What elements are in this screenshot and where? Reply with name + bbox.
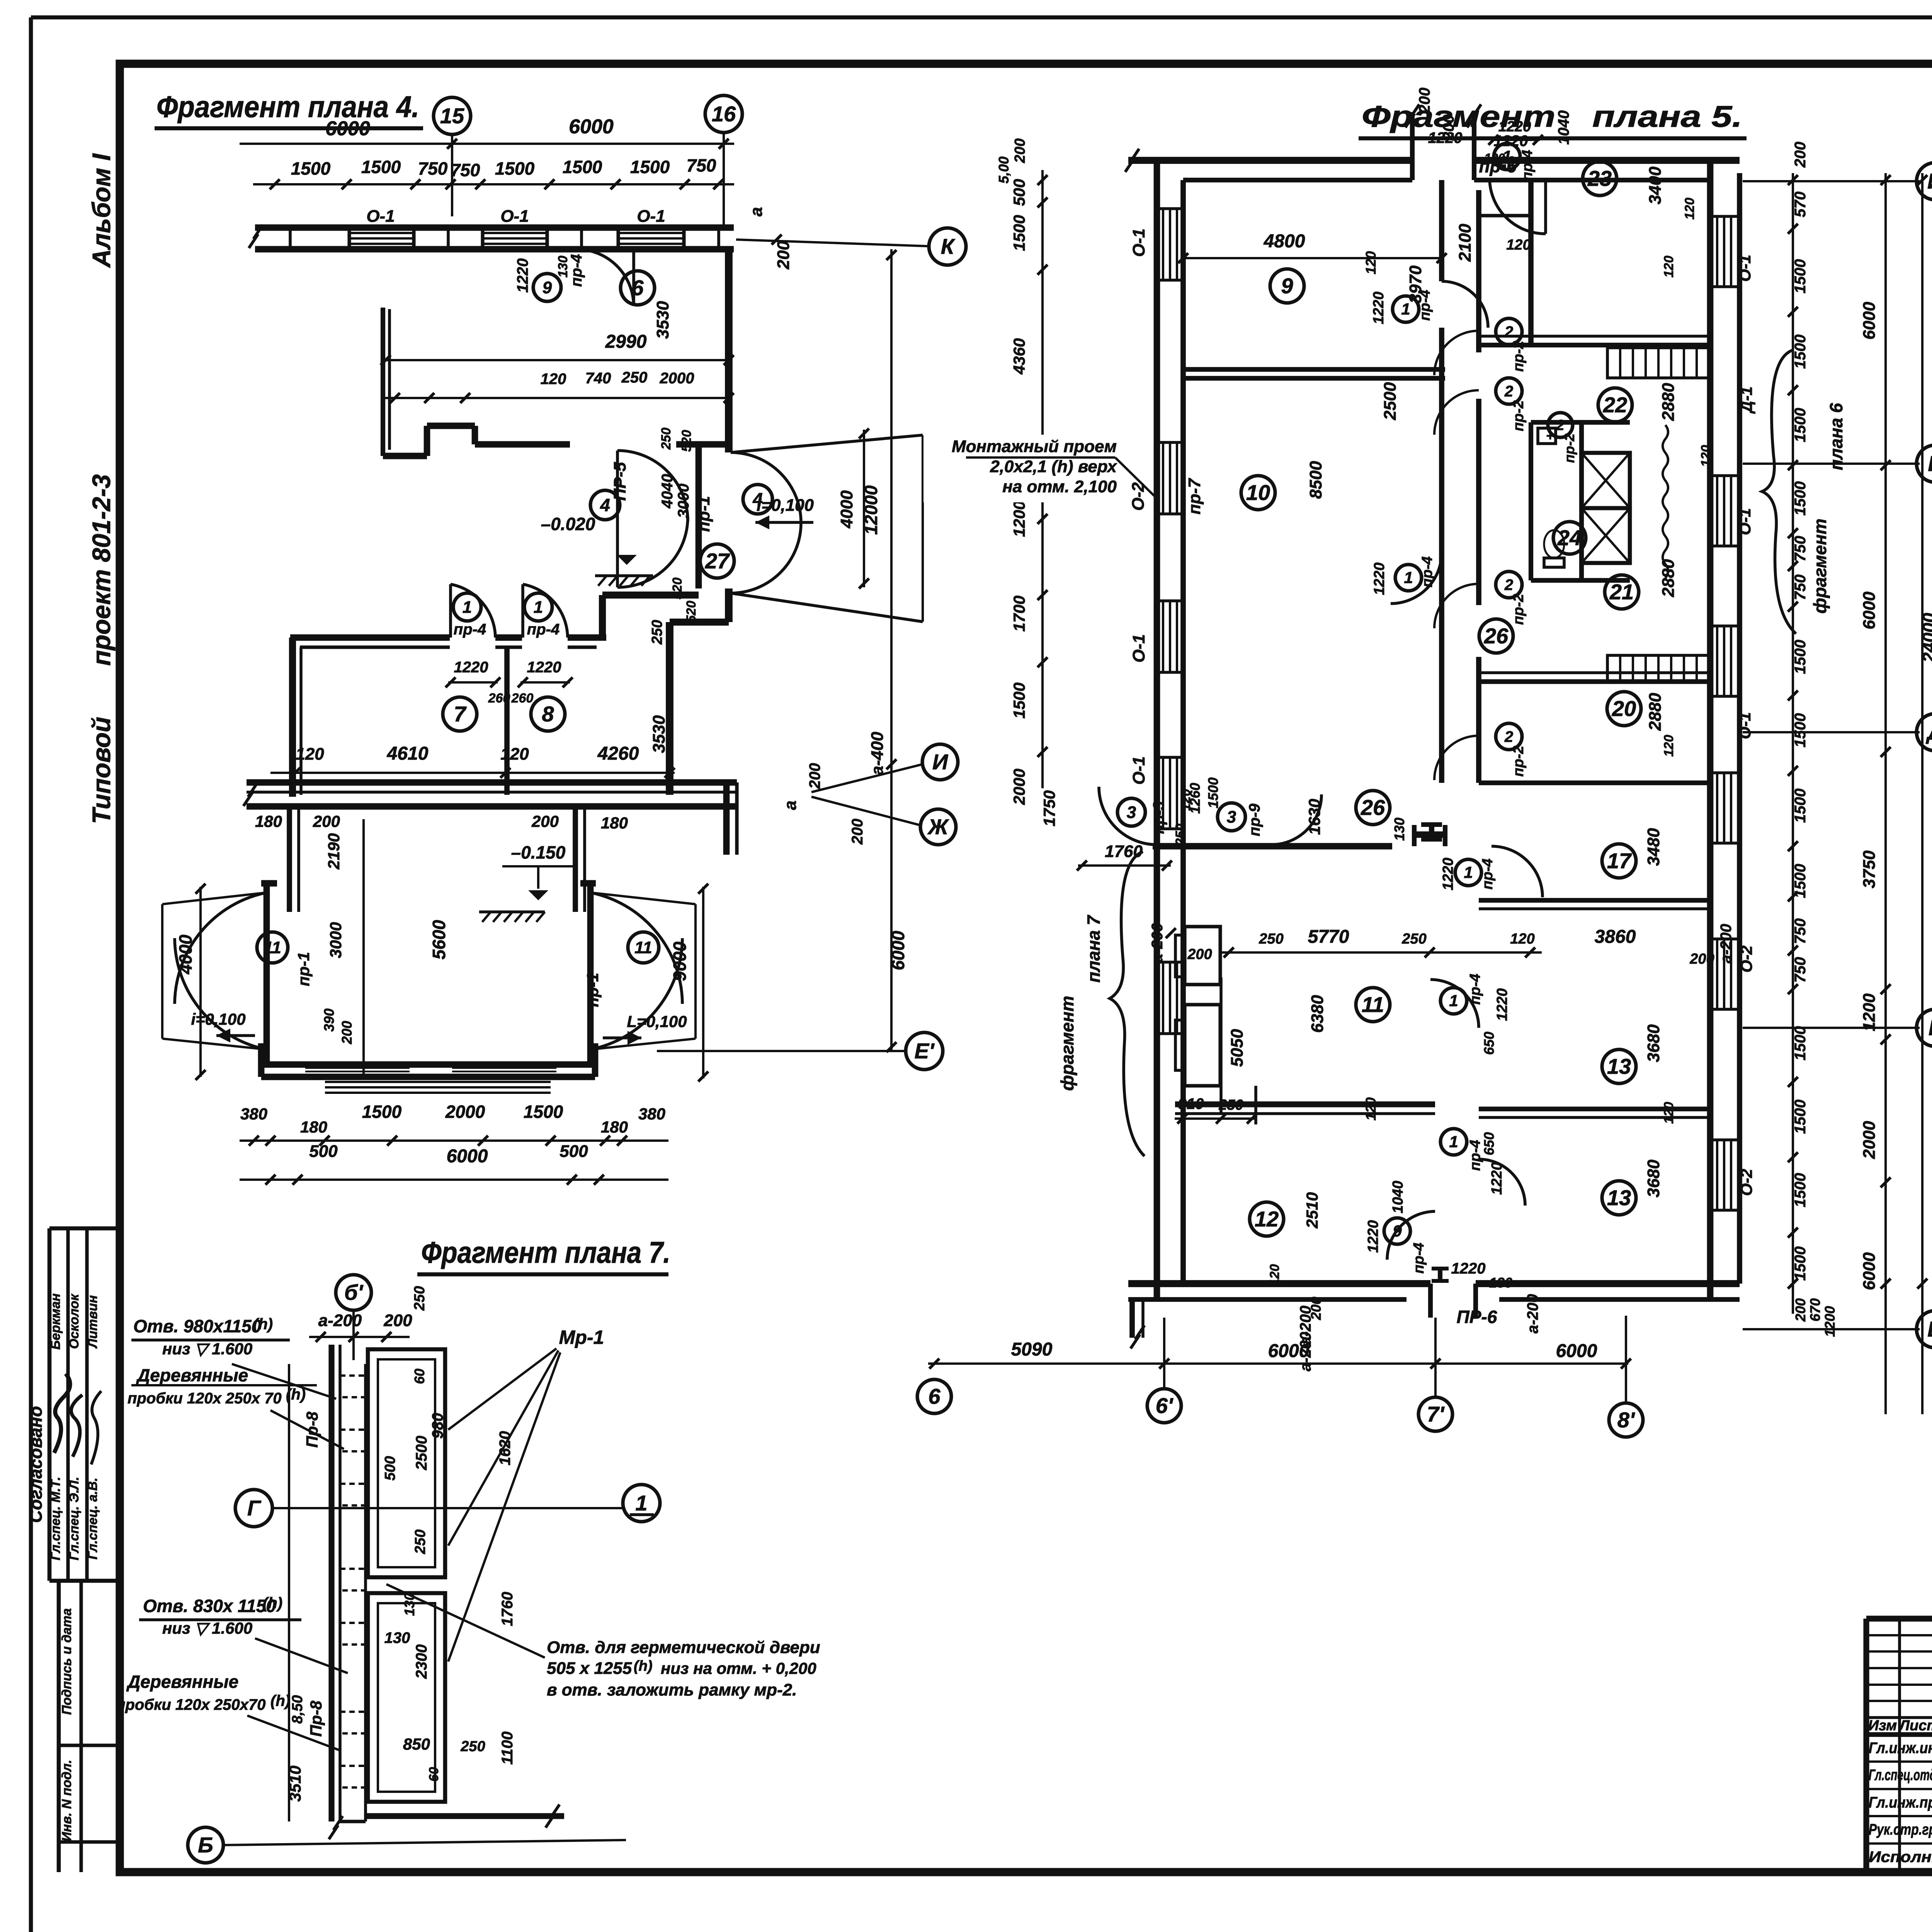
- svg-text:120: 120: [296, 745, 324, 764]
- svg-text:6000: 6000: [1556, 1341, 1597, 1361]
- svg-text:Согласовано: Согласовано: [26, 1406, 46, 1523]
- wavy partition line: [1663, 425, 1668, 578]
- svg-text:1630: 1630: [1305, 799, 1323, 835]
- svg-text:21: 21: [1609, 580, 1634, 604]
- svg-text:2,0х2,1 (h) верх: 2,0х2,1 (h) верх: [990, 457, 1117, 476]
- svg-text:плана 6: плана 6: [1826, 403, 1846, 470]
- fragment 4 vestibule labels: [590, 490, 620, 520]
- svg-text:1220: 1220: [1371, 563, 1388, 595]
- fragment 4 rooms 7/8 doors pr-4: [451, 584, 495, 638]
- svg-text:1220: 1220: [527, 659, 561, 676]
- fragment 5 lower-left: doors 3 pr-3 pr-9: [1117, 798, 1145, 826]
- soglasovano table: [49, 1226, 120, 1231]
- svg-text:6000: 6000: [447, 1146, 488, 1167]
- svg-text:500: 500: [309, 1142, 338, 1161]
- svg-text:а: а: [781, 801, 800, 810]
- svg-text:1500: 1500: [1792, 259, 1809, 294]
- fragment 4 porch room walls: [264, 883, 270, 1066]
- svg-text:250: 250: [649, 620, 665, 645]
- svg-text:1500: 1500: [495, 158, 535, 179]
- svg-text:1500: 1500: [1792, 789, 1809, 823]
- svg-text:Гл.инж.пр: Гл.инж.пр: [1869, 1794, 1932, 1811]
- svg-text:2: 2: [1504, 383, 1513, 400]
- fragment 4 porch wall stubs: [287, 806, 292, 912]
- svg-text:750: 750: [687, 155, 716, 175]
- svg-text:11: 11: [264, 938, 281, 957]
- fragment 5 room 26 lower: [1356, 791, 1390, 825]
- svg-text:6: 6: [928, 1384, 940, 1408]
- svg-text:1: 1: [534, 598, 543, 617]
- svg-text:а-200: а-200: [1297, 1306, 1314, 1345]
- svg-text:1220: 1220: [454, 659, 488, 676]
- fragment 5 right dimension chains: [1792, 173, 1794, 1314]
- svg-text:2510: 2510: [1303, 1192, 1321, 1228]
- svg-text:1: 1: [1449, 1133, 1458, 1151]
- svg-text:250: 250: [621, 369, 648, 386]
- svg-text:О-2: О-2: [1737, 1169, 1755, 1196]
- svg-text:9000: 9000: [670, 941, 690, 981]
- svg-text:8': 8': [1617, 1408, 1635, 1432]
- fragment 5 room 11: [1356, 988, 1390, 1022]
- svg-text:Гл.спец. а.В.: Гл.спец. а.В.: [85, 1478, 100, 1560]
- svg-text:1500: 1500: [1792, 713, 1809, 748]
- svg-text:2500: 2500: [413, 1436, 430, 1471]
- fragment 5 right rooms lower: 17, 13, 13: [1602, 844, 1636, 878]
- fragment 5 wc block (24): [1531, 420, 1630, 425]
- svg-text:О-1: О-1: [637, 207, 665, 226]
- svg-text:–0.150: –0.150: [511, 842, 566, 862]
- svg-text:Г: Г: [247, 1496, 262, 1520]
- svg-text:L=0,100: L=0,100: [627, 1012, 687, 1031]
- svg-text:9: 9: [543, 278, 552, 297]
- svg-text:670: 670: [1807, 1298, 1823, 1321]
- svg-text:15: 15: [440, 104, 464, 128]
- svg-text:фрагмент: фрагмент: [1810, 519, 1830, 614]
- fragment 7 bottom wall turn: [366, 1813, 564, 1819]
- svg-text:пр-1: пр-1: [294, 952, 313, 986]
- svg-text:120: 120: [1510, 931, 1534, 947]
- fragment 5 left window band: [1154, 160, 1160, 1299]
- svg-text:О-1: О-1: [500, 207, 529, 226]
- svg-text:Рук.стр.гр: Рук.стр.гр: [1869, 1821, 1932, 1838]
- svg-text:К: К: [941, 234, 956, 259]
- fragment 7 axis B line: [188, 1827, 223, 1863]
- svg-text:пр-4: пр-4: [1411, 1243, 1427, 1274]
- svg-text:200: 200: [1793, 1298, 1808, 1322]
- svg-text:Отв. для герметической двери: Отв. для герметической двери: [547, 1638, 820, 1657]
- svg-text:750: 750: [1792, 575, 1809, 600]
- svg-text:5600: 5600: [429, 920, 449, 959]
- svg-text:520: 520: [670, 578, 685, 600]
- fragment 7 mr-1 frame boxes: [368, 1349, 445, 1577]
- svg-text:980: 980: [429, 1413, 446, 1439]
- svg-text:а-200: а-200: [318, 1311, 362, 1330]
- svg-text:250: 250: [1401, 931, 1426, 947]
- svg-text:1: 1: [635, 1491, 647, 1515]
- svg-text:120: 120: [1662, 256, 1676, 278]
- svg-text:фрагмент: фрагмент: [1057, 996, 1077, 1091]
- svg-text:Деревянные: Деревянные: [136, 1365, 248, 1385]
- svg-text:16: 16: [712, 102, 736, 126]
- svg-text:740: 740: [585, 370, 611, 387]
- svg-text:ПР-6: ПР-6: [1457, 1307, 1497, 1327]
- svg-text:пр-4: пр-4: [568, 254, 585, 287]
- svg-text:5090: 5090: [1011, 1339, 1053, 1360]
- fragment 4: axis K: [736, 240, 927, 246]
- svg-text:Е': Е': [915, 1039, 935, 1063]
- svg-text:650: 650: [1481, 1032, 1497, 1055]
- svg-text:1040: 1040: [1390, 1181, 1406, 1214]
- svg-text:i=0,100: i=0,100: [191, 1010, 245, 1028]
- svg-text:1500: 1500: [524, 1102, 563, 1122]
- svg-text:2500: 2500: [1381, 382, 1400, 420]
- svg-text:7: 7: [454, 702, 467, 726]
- svg-text:200: 200: [383, 1311, 412, 1330]
- svg-text:Г: Г: [1929, 1015, 1932, 1040]
- fragment 4 axis I and Zh: [811, 764, 922, 792]
- svg-text:4360: 4360: [1010, 338, 1028, 374]
- svg-text:200: 200: [806, 763, 823, 789]
- svg-text:1: 1: [1449, 992, 1458, 1010]
- svg-text:а-200: а-200: [1149, 923, 1166, 963]
- svg-text:505 х 1255: 505 х 1255: [547, 1659, 632, 1678]
- fragment 7 axis G line: [235, 1490, 272, 1527]
- svg-text:2: 2: [1504, 577, 1513, 594]
- svg-text:3: 3: [1127, 803, 1136, 822]
- svg-text:1220: 1220: [1451, 1260, 1486, 1277]
- svg-text:2880: 2880: [1646, 693, 1665, 731]
- svg-text:О-1: О-1: [1736, 508, 1754, 535]
- svg-text:27: 27: [705, 549, 730, 573]
- svg-text:1500: 1500: [1792, 1247, 1809, 1281]
- svg-text:пробки 120х 250х70: пробки 120х 250х70: [116, 1696, 265, 1713]
- svg-text:6000: 6000: [1860, 1252, 1879, 1290]
- svg-text:Фрагмент плана 4.: Фрагмент плана 4.: [156, 90, 419, 124]
- svg-text:5,00: 5,00: [996, 156, 1012, 184]
- svg-text:200: 200: [774, 241, 793, 270]
- svg-text:пр-4: пр-4: [527, 621, 560, 638]
- svg-text:260: 260: [488, 691, 510, 706]
- fragment 6 reference brace on fragment 5: [1762, 350, 1796, 634]
- wc toilet symbol: [1544, 530, 1564, 558]
- svg-text:Д-1: Д-1: [1737, 386, 1755, 414]
- svg-text:8,50: 8,50: [289, 1695, 306, 1724]
- svg-text:на отм. 2,100: на отм. 2,100: [1002, 477, 1117, 496]
- svg-text:1220: 1220: [1494, 988, 1510, 1021]
- wc small sink: [1538, 428, 1556, 444]
- svg-text:1500: 1500: [362, 1102, 402, 1122]
- fragment 5 top wall: [1128, 157, 1414, 164]
- fragment 7 mr-1 leader lines: [448, 1349, 556, 1430]
- svg-text:180: 180: [300, 1118, 327, 1136]
- svg-text:10: 10: [1246, 480, 1270, 505]
- svg-text:5770: 5770: [1308, 927, 1349, 947]
- svg-text:500: 500: [560, 1142, 588, 1161]
- svg-text:24: 24: [1557, 526, 1582, 550]
- svg-text:(h): (h): [634, 1658, 653, 1674]
- fragment 5 corridor 26: [1479, 619, 1513, 653]
- svg-text:24000: 24000: [1919, 613, 1932, 663]
- svg-text:–0.020: –0.020: [541, 514, 595, 534]
- svg-text:4260: 4260: [597, 743, 639, 764]
- outer sheet border: [31, 15, 1932, 20]
- right vertical dims of fragment 4: [890, 249, 893, 1051]
- fragment 5 bottom wall: [1128, 1280, 1430, 1287]
- fragment 5 room 12: [1175, 1101, 1435, 1107]
- svg-text:180: 180: [601, 1118, 628, 1136]
- fragment 5 room 22: [1598, 388, 1632, 422]
- svg-text:3000: 3000: [327, 922, 345, 958]
- svg-text:пр-7: пр-7: [1185, 478, 1204, 514]
- fragment 5 axis circles right: [1743, 180, 1920, 182]
- svg-text:11: 11: [1362, 992, 1384, 1017]
- svg-text:а-200: а-200: [1524, 1294, 1541, 1333]
- fragment 7 axis B-prime top: [336, 1275, 371, 1310]
- svg-text:Изм: Изм: [1868, 1718, 1897, 1734]
- svg-text:1700: 1700: [1010, 595, 1028, 631]
- svg-text:1220: 1220: [1428, 129, 1463, 146]
- axis E-prime: [657, 1050, 906, 1052]
- svg-text:Ж: Ж: [927, 815, 949, 839]
- svg-text:120: 120: [1506, 237, 1531, 253]
- svg-text:2: 2: [1504, 323, 1513, 340]
- steel column I-beam lower: [1432, 1267, 1449, 1270]
- fragment 5 room 10: [1241, 476, 1275, 510]
- svg-text:120: 120: [1363, 1097, 1379, 1121]
- svg-text:1500: 1500: [1010, 682, 1028, 718]
- svg-text:О-1: О-1: [1129, 228, 1148, 257]
- svg-text:2000: 2000: [660, 370, 694, 387]
- svg-text:8500: 8500: [1306, 461, 1325, 499]
- svg-text:Деревянные: Деревянные: [126, 1672, 238, 1692]
- svg-text:260: 260: [511, 691, 534, 706]
- svg-text:9: 9: [1281, 274, 1293, 298]
- svg-text:130: 130: [1391, 818, 1407, 841]
- title block left table: [1866, 1634, 1932, 1636]
- svg-text:И: И: [1927, 169, 1932, 193]
- svg-text:И: И: [932, 750, 949, 774]
- svg-text:250: 250: [412, 1286, 428, 1311]
- svg-text:1620: 1620: [497, 1431, 514, 1466]
- svg-text:750: 750: [1792, 536, 1809, 562]
- svg-text:9: 9: [1393, 1222, 1402, 1240]
- svg-text:1500: 1500: [1792, 640, 1809, 674]
- svg-text:пр-4: пр-4: [1419, 556, 1435, 587]
- svg-text:Б: Б: [198, 1833, 213, 1857]
- svg-text:13: 13: [1607, 1054, 1631, 1078]
- svg-text:Б: Б: [1927, 1317, 1932, 1341]
- svg-text:200: 200: [1416, 88, 1433, 114]
- svg-text:3400: 3400: [1646, 167, 1665, 204]
- svg-text:650: 650: [1481, 1132, 1497, 1155]
- podpis i data / inv N podl box: [57, 1581, 61, 1872]
- svg-text:750: 750: [451, 160, 480, 180]
- svg-text:в отв. заложить рамку мр-2.: в отв. заложить рамку мр-2.: [547, 1680, 797, 1699]
- svg-text:О-1: О-1: [366, 207, 395, 226]
- svg-text:200: 200: [1792, 142, 1809, 168]
- svg-text:6000: 6000: [888, 930, 908, 970]
- svg-text:3680: 3680: [1644, 1024, 1663, 1062]
- svg-text:1750: 1750: [1040, 790, 1058, 826]
- svg-text:пр-4: пр-4: [454, 621, 486, 638]
- svg-text:8: 8: [542, 702, 554, 726]
- svg-text:250: 250: [460, 1738, 485, 1755]
- svg-text:120: 120: [1682, 198, 1697, 220]
- svg-text:380: 380: [638, 1105, 665, 1123]
- svg-text:О-1: О-1: [1129, 756, 1148, 784]
- svg-text:Гл.спец. М.Т.: Гл.спец. М.Т.: [48, 1477, 63, 1560]
- svg-text:1220: 1220: [1498, 119, 1531, 135]
- svg-text:6000: 6000: [1860, 302, 1879, 340]
- svg-text:Исполн.: Исполн.: [1869, 1849, 1932, 1866]
- fragment 5 door 1 pr-4 (room 9/corridor): [1442, 281, 1488, 328]
- svg-text:1500: 1500: [1792, 1100, 1809, 1134]
- svg-text:2000: 2000: [1010, 769, 1028, 805]
- svg-text:(h): (h): [270, 1692, 290, 1709]
- svg-text:1260: 1260: [1187, 783, 1203, 814]
- extra pr-2 door near wc: [1548, 413, 1573, 437]
- svg-text:570: 570: [1792, 192, 1809, 218]
- svg-text:б': б': [344, 1280, 364, 1304]
- svg-text:пробки 120х 250х 70: пробки 120х 250х 70: [128, 1390, 282, 1407]
- fragment 5 room 9: [1270, 269, 1304, 303]
- svg-text:6000: 6000: [1860, 592, 1879, 629]
- svg-text:6380: 6380: [1308, 995, 1327, 1033]
- fragment 5 pr-2 doors column: [1434, 331, 1479, 375]
- fragment 5 wall below doors: [1153, 843, 1392, 850]
- svg-text:750: 750: [418, 158, 448, 179]
- svg-text:1200: 1200: [1860, 993, 1879, 1031]
- svg-text:2880: 2880: [1659, 383, 1678, 421]
- svg-text:Пр-8: Пр-8: [307, 1701, 325, 1737]
- svg-text:130: 130: [401, 1593, 417, 1616]
- svg-text:Гл.инж.ин: Гл.инж.ин: [1869, 1740, 1932, 1757]
- fragment 7 main wall: [328, 1345, 334, 1821]
- svg-text:120: 120: [541, 371, 566, 388]
- svg-text:200: 200: [339, 1021, 355, 1044]
- svg-text:4000: 4000: [175, 934, 196, 975]
- svg-text:120: 120: [1363, 251, 1379, 274]
- fragment 5 left dimension chain: [1041, 170, 1044, 788]
- fragment 4: axis circles 15 16: [434, 97, 471, 134]
- svg-text:200: 200: [531, 812, 559, 830]
- svg-text:3000: 3000: [675, 484, 692, 518]
- fragment 7 reference brace on fragment 5: [1110, 852, 1145, 1156]
- svg-text:1: 1: [1404, 568, 1413, 587]
- svg-text:1220: 1220: [1365, 1220, 1381, 1253]
- svg-text:пр-1: пр-1: [694, 496, 713, 532]
- svg-text:380: 380: [240, 1105, 267, 1123]
- svg-text:180: 180: [601, 814, 628, 832]
- porch labels: [257, 932, 288, 963]
- porch double doors right: [590, 893, 682, 1004]
- fragment 4 vestibule door pr-5 (double swing): [616, 451, 619, 587]
- svg-text:пр-4: пр-4: [1519, 150, 1536, 181]
- svg-text:4800: 4800: [1264, 231, 1305, 252]
- svg-text:200: 200: [1012, 138, 1028, 163]
- svg-text:120: 120: [1267, 1264, 1282, 1286]
- svg-text:1: 1: [463, 598, 472, 617]
- svg-text:6000: 6000: [325, 117, 370, 140]
- svg-text:1040: 1040: [1555, 111, 1572, 145]
- svg-text:Отв. 830х 1150: Отв. 830х 1150: [143, 1596, 276, 1616]
- svg-text:пр-9: пр-9: [1246, 803, 1263, 836]
- svg-text:О-2: О-2: [1737, 946, 1755, 973]
- svg-text:пр-4: пр-4: [1480, 859, 1496, 889]
- svg-text:а: а: [747, 207, 766, 216]
- svg-text:26: 26: [1484, 624, 1509, 648]
- fragment 5 right top door 1 pr-4 (room 23): [1544, 180, 1547, 234]
- signatures in soglasovano: [54, 1374, 70, 1453]
- svg-text:О-1: О-1: [1736, 712, 1754, 739]
- svg-text:1100: 1100: [499, 1731, 516, 1765]
- svg-text:200: 200: [849, 819, 866, 845]
- fragment 4 rooms 7/8 block walls: [290, 634, 450, 641]
- svg-text:пр-2: пр-2: [1510, 594, 1527, 625]
- svg-text:Монтажный проем: Монтажный проем: [952, 437, 1117, 456]
- svg-text:пр-2: пр-2: [1561, 434, 1577, 463]
- svg-text:3860: 3860: [1595, 927, 1636, 947]
- fragment 5 right window band: [1707, 160, 1714, 1299]
- fragment 5 room 21: [1605, 575, 1639, 609]
- svg-text:Отв. 980х1150: Отв. 980х1150: [133, 1316, 262, 1336]
- fragment 5 stairs hatch (room 20 bottom): [1607, 655, 1710, 681]
- svg-text:Инв. N подл.: Инв. N подл.: [60, 1760, 74, 1842]
- fragment 4 room 6 walls: [381, 308, 385, 456]
- svg-text:Осколок: Осколок: [67, 1293, 82, 1349]
- svg-text:3750: 3750: [1860, 850, 1879, 888]
- svg-text:60: 60: [412, 1369, 427, 1384]
- svg-text:1220: 1220: [1489, 1162, 1505, 1195]
- svg-text:О-1: О-1: [1129, 634, 1148, 662]
- svg-text:1200: 1200: [1822, 1306, 1838, 1337]
- svg-text:120: 120: [500, 745, 529, 764]
- svg-text:250: 250: [659, 428, 673, 450]
- fragment 5 door 1 pr-4 (room10): [1391, 553, 1442, 604]
- svg-text:250: 250: [412, 1529, 429, 1554]
- svg-text:Пр-8: Пр-8: [303, 1412, 321, 1448]
- svg-text:500: 500: [1010, 179, 1028, 206]
- svg-text:850: 850: [403, 1735, 430, 1753]
- fragment 4: top exterior wall band with windows O-1: [255, 224, 734, 231]
- svg-text:13: 13: [1607, 1185, 1631, 1210]
- svg-text:5050: 5050: [1228, 1029, 1247, 1067]
- svg-text:1500: 1500: [1010, 215, 1028, 251]
- svg-text:1220: 1220: [514, 259, 531, 293]
- fragment 5 door 9 pr-4 (room12): [1387, 1211, 1435, 1260]
- svg-text:120: 120: [1662, 1102, 1676, 1124]
- fragment 4 room 6 door pr-4 and labels: [577, 249, 634, 306]
- svg-text:низ ▽ 1.600: низ ▽ 1.600: [162, 1340, 252, 1358]
- svg-text:200: 200: [1187, 946, 1212, 963]
- svg-text:12: 12: [1255, 1207, 1279, 1231]
- svg-text:7': 7': [1427, 1402, 1445, 1426]
- svg-text:1500: 1500: [1792, 335, 1809, 369]
- svg-text:20: 20: [1612, 696, 1636, 721]
- svg-text:Гл.спец.отд: Гл.спец.отд: [1869, 1767, 1932, 1784]
- svg-text:250: 250: [1259, 931, 1283, 947]
- svg-text:3: 3: [1227, 808, 1236, 827]
- svg-text:1500: 1500: [361, 157, 401, 177]
- svg-text:Фрагмент плана 7.: Фрагмент плана 7.: [421, 1235, 670, 1269]
- svg-text:6: 6: [631, 276, 644, 300]
- svg-text:3530: 3530: [653, 301, 672, 339]
- porch steps: [325, 1081, 551, 1083]
- svg-text:2990: 2990: [605, 332, 647, 352]
- fragment 4 lower band (axis I wall): [247, 779, 737, 786]
- svg-text:11: 11: [634, 938, 652, 957]
- svg-text:Подпись и дата: Подпись и дата: [60, 1608, 74, 1715]
